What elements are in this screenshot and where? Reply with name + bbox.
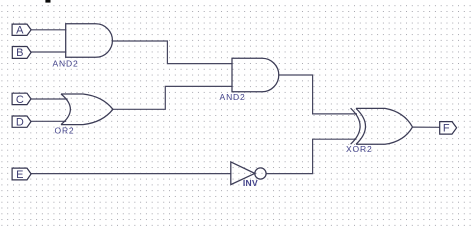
svg-text:INV: INV [243, 178, 258, 188]
svg-text:F: F [443, 123, 450, 135]
OR2 gate U2 body [61, 94, 113, 125]
output pin marker F [440, 122, 457, 135]
wire AND2 U1 output to AND2 U3 top input [112, 41, 232, 64]
svg-text:C: C [16, 94, 24, 106]
input pin marker A [12, 24, 31, 35]
wire XOR2 U5 output to pin F [413, 126, 440, 128]
AND2 gate U3 body [232, 58, 279, 92]
wire A to AND2 U1 [31, 29, 66, 31]
svg-text:B: B [16, 47, 23, 59]
wire E to INV U4 [31, 173, 231, 175]
input pin marker B [12, 47, 31, 59]
AND2 gate U1 body [66, 24, 113, 58]
wire AND2 U3 output to XOR2 U5 top input [279, 75, 357, 114]
wire B to AND2 U1 [31, 51, 66, 53]
input pin marker D [12, 116, 31, 127]
XOR2 gate U5 input arc [351, 108, 361, 144]
svg-text:OR2: OR2 [54, 126, 74, 136]
svg-text:AND2: AND2 [220, 92, 246, 102]
XOR2 gate U5 body [356, 108, 413, 144]
INV gate U4 bubble [255, 168, 266, 179]
cropped title text fragment [45, 0, 50, 3]
input pin marker C [12, 93, 31, 104]
svg-text:E: E [16, 169, 23, 181]
svg-text:AND2: AND2 [52, 58, 78, 68]
svg-text:A: A [16, 25, 24, 37]
svg-text:D: D [16, 117, 24, 129]
input pin marker E [12, 168, 31, 180]
INV gate U4 triangle [231, 162, 255, 185]
wire C to OR2 U2 [30, 98, 67, 100]
wire D to OR2 U2 [30, 120, 65, 122]
svg-text:XOR2: XOR2 [346, 144, 373, 154]
wire INV U4 output to XOR2 U5 bottom input [266, 139, 356, 173]
wire OR2 U2 output to AND2 U3 bottom input [113, 86, 232, 109]
